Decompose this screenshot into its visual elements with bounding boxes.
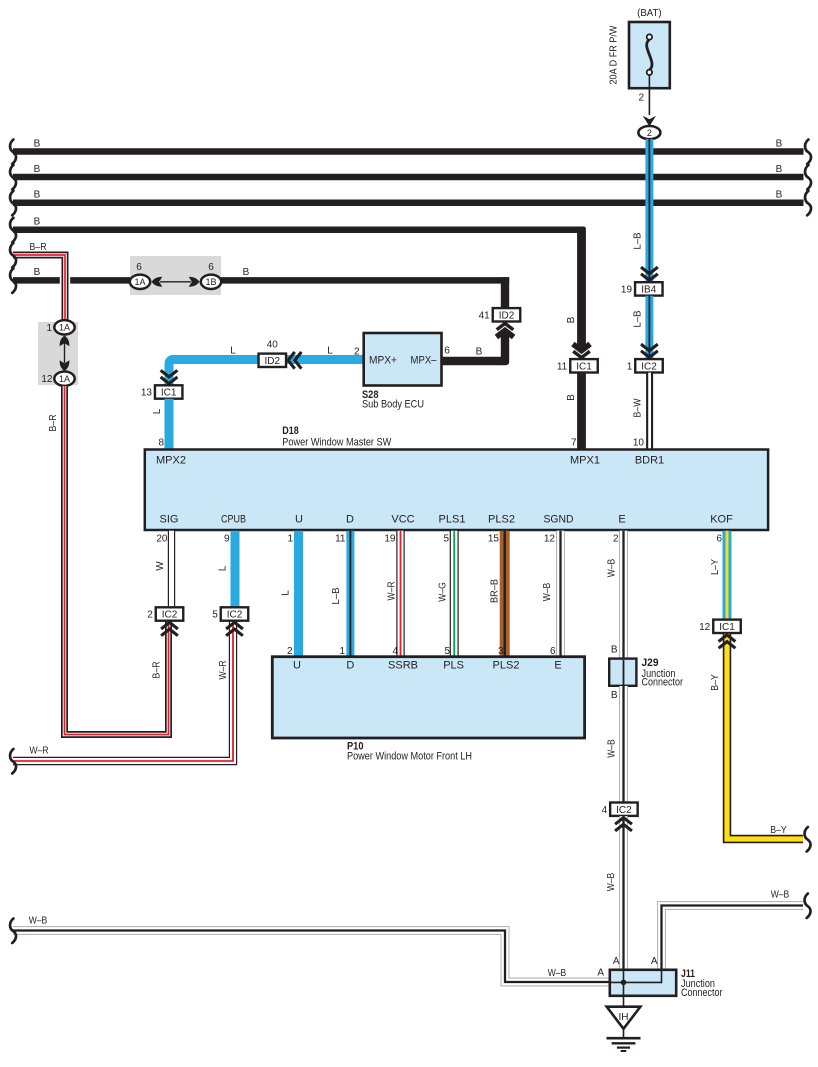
svg-text:PLS2: PLS2 — [488, 514, 515, 526]
wire W-B from D18 E pin 2 to junction connector J29 — [607, 531, 624, 659]
svg-text:4: 4 — [602, 805, 608, 816]
wire B-R from 1A pin 12 down and right to IC2 pin 2 — [48, 386, 178, 735]
wire L-B from connector 2 to IB4 pin 19 — [633, 139, 658, 282]
svg-text:E: E — [554, 660, 561, 672]
wire W-B from IC2 pin 4 to J11 pin A — [606, 816, 632, 970]
svg-text:IC2: IC2 — [616, 805, 632, 816]
connector IB4 pin 19 — [635, 282, 663, 295]
svg-text:9: 9 — [224, 534, 230, 545]
svg-text:SSRB: SSRB — [388, 660, 418, 672]
svg-text:U: U — [295, 514, 303, 526]
svg-text:W–B: W–B — [29, 916, 48, 927]
svg-text:MPX1: MPX1 — [570, 455, 600, 467]
svg-text:B–R: B–R — [30, 242, 47, 253]
svg-text:12: 12 — [699, 622, 711, 633]
svg-text:W–B: W–B — [548, 968, 567, 979]
svg-text:CPUB: CPUB — [221, 514, 246, 526]
svg-text:8: 8 — [158, 438, 164, 449]
wire B-Y from IC1 pin 12 to right break — [710, 634, 811, 852]
svg-text:Power Window Motor Front LH: Power Window Motor Front LH — [347, 751, 472, 763]
svg-text:40: 40 — [267, 340, 279, 351]
junction block shading 1A-1B — [130, 256, 221, 295]
svg-text:L: L — [327, 346, 333, 357]
svg-text:IH: IH — [619, 1012, 629, 1023]
svg-text:B: B — [566, 316, 577, 323]
svg-text:10: 10 — [633, 437, 645, 448]
svg-text:ID2: ID2 — [499, 310, 515, 321]
wire L from IC1 to D18 MPX2 pin 8 — [152, 399, 169, 449]
wire W-R from left break to IC2 pin 5 — [10, 621, 243, 774]
svg-text:MPX2: MPX2 — [156, 455, 186, 467]
wire W from D18 SIG pin 20 to IC2 pin 2 — [155, 531, 172, 608]
svg-text:1: 1 — [627, 361, 633, 372]
svg-text:6: 6 — [136, 262, 142, 273]
svg-text:B: B — [776, 138, 783, 149]
svg-text:1A: 1A — [59, 374, 70, 384]
wire BR-B from D18 PLS2 pin 15 to P10 PLS2 pin 3 — [488, 531, 505, 658]
svg-text:W–B: W–B — [771, 890, 790, 901]
connector 1A pin 6 (rail 5) — [130, 262, 150, 289]
switch D18 Power Window Master SW — [145, 425, 768, 530]
svg-text:2: 2 — [613, 534, 619, 545]
arrow into ID2 pin 40 — [288, 352, 301, 369]
svg-text:BR–B: BR–B — [490, 579, 501, 603]
svg-text:1A: 1A — [59, 323, 70, 333]
svg-text:E: E — [618, 514, 625, 526]
wires inside J11 and junction dot — [610, 970, 662, 996]
connector IC1 pin 11 — [570, 359, 598, 372]
svg-text:L: L — [230, 346, 236, 357]
svg-text:MPX+: MPX+ — [369, 355, 397, 367]
connector oval 2 — [638, 126, 660, 139]
svg-text:11: 11 — [557, 361, 568, 372]
wire L-Y from D18 KOF pin 6 to IC1 pin 12 — [710, 531, 727, 620]
svg-text:D18: D18 — [282, 425, 299, 437]
connector IC2 pin 2 (SIG) — [156, 607, 184, 620]
svg-text:B: B — [776, 164, 783, 175]
svg-text:B: B — [34, 190, 41, 201]
svg-text:B–Y: B–Y — [770, 825, 787, 836]
wire B ground rail 4 to D18 MPX1 — [10, 217, 586, 349]
connector IC2 pin 5 (CPUB) — [221, 607, 249, 620]
junction block shading 1A-1A — [38, 322, 78, 385]
svg-text:B: B — [243, 267, 250, 278]
svg-text:B–W: B–W — [633, 398, 644, 417]
svg-text:W–B: W–B — [542, 582, 553, 601]
arrow between 1A pins — [60, 336, 70, 372]
svg-text:B–R: B–R — [152, 662, 163, 679]
svg-text:IC2: IC2 — [227, 610, 243, 621]
svg-text:IC2: IC2 — [641, 361, 657, 372]
svg-text:6: 6 — [208, 262, 214, 273]
svg-text:PLS1: PLS1 — [439, 514, 466, 526]
svg-text:13: 13 — [141, 388, 153, 399]
svg-text:IB4: IB4 — [641, 285, 656, 296]
svg-text:D: D — [346, 660, 354, 672]
svg-text:1: 1 — [46, 323, 52, 334]
svg-text:(BAT): (BAT) — [637, 8, 662, 19]
svg-text:SGND: SGND — [544, 514, 574, 526]
svg-text:B: B — [476, 347, 483, 358]
svg-text:BDR1: BDR1 — [635, 455, 664, 467]
svg-text:A: A — [651, 956, 658, 967]
svg-text:19: 19 — [621, 285, 633, 296]
svg-text:B: B — [611, 690, 618, 701]
svg-text:L–B: L–B — [633, 310, 644, 327]
wire L-B from IB4 to IC2 pin 1 — [633, 296, 658, 359]
svg-text:KOF: KOF — [710, 514, 733, 526]
svg-text:IC1: IC1 — [576, 361, 592, 372]
connector IC1 pin 13 — [155, 385, 183, 398]
wire B ground rail 5 to S28 MPX- via ID2 — [10, 267, 509, 365]
svg-text:19: 19 — [384, 534, 396, 545]
svg-text:B: B — [34, 217, 41, 228]
svg-text:W–R: W–R — [218, 661, 229, 680]
wire B-W from IC2 to D18 BDR1 pin 10 — [633, 373, 650, 449]
svg-text:6: 6 — [716, 534, 722, 545]
svg-text:2: 2 — [647, 128, 652, 138]
svg-text:B: B — [611, 645, 618, 656]
fuse 20A D FR P/W (BAT) — [609, 8, 670, 88]
svg-text:B: B — [34, 267, 41, 278]
svg-text:2: 2 — [638, 93, 644, 104]
junction connector J29 — [609, 657, 683, 689]
wire L from S28 MPX+ pin 2 to IC1 pin 13 — [161, 346, 364, 386]
wire W-B from J11 pin A to right break — [651, 890, 811, 972]
svg-text:A: A — [597, 968, 604, 979]
wire L-B from D18 D pin 11 to P10 pin 1 — [331, 531, 350, 658]
svg-text:B–R: B–R — [48, 415, 59, 432]
svg-text:B: B — [34, 138, 41, 149]
svg-text:5: 5 — [212, 610, 218, 621]
connector 1A pin 1 (left) — [46, 320, 74, 334]
arrow into ID2 pin 41 — [496, 323, 513, 337]
svg-text:1A: 1A — [134, 277, 145, 287]
svg-text:Connector: Connector — [681, 987, 723, 999]
connector 1A pin 12 (left) — [41, 372, 74, 386]
ground IH — [607, 996, 641, 1051]
svg-text:SIG: SIG — [160, 514, 179, 526]
svg-text:11: 11 — [335, 534, 346, 545]
wire L from D18 CPUB pin 9 to IC2 pin 5 — [218, 531, 236, 608]
connector ID2 pin 40 — [259, 340, 287, 368]
svg-text:15: 15 — [488, 534, 500, 545]
svg-text:IC1: IC1 — [161, 388, 177, 399]
svg-text:20: 20 — [156, 534, 168, 545]
svg-text:ID2: ID2 — [265, 356, 281, 367]
connector ID2 pin 41 — [493, 308, 521, 321]
wire B ground rail 1 — [10, 138, 811, 164]
connector 1B pin 6 (rail 5) — [201, 262, 221, 289]
svg-text:L: L — [218, 565, 229, 571]
wire B from IC1 to D18 MPX1 pin 7 — [566, 373, 582, 449]
svg-text:5: 5 — [443, 534, 449, 545]
svg-text:B: B — [566, 394, 577, 401]
svg-text:L–B: L–B — [331, 587, 342, 604]
wire W-B from left break to J11 pin A — [10, 916, 610, 983]
wire B ground rail 3 — [10, 190, 811, 216]
svg-text:MPX–: MPX– — [411, 355, 438, 367]
svg-text:L–Y: L–Y — [710, 559, 721, 575]
svg-text:1B: 1B — [205, 277, 216, 287]
svg-text:A: A — [613, 956, 620, 967]
svg-text:PLS2: PLS2 — [493, 660, 520, 672]
svg-text:IC1: IC1 — [719, 622, 735, 633]
svg-text:D: D — [346, 514, 354, 526]
svg-text:1: 1 — [287, 534, 293, 545]
svg-text:41: 41 — [479, 310, 491, 321]
svg-text:12: 12 — [544, 534, 556, 545]
svg-text:B: B — [34, 164, 41, 175]
svg-text:W–R: W–R — [30, 746, 49, 757]
junction connector J11 — [610, 968, 723, 999]
svg-text:Power Window Master SW: Power Window Master SW — [282, 437, 392, 449]
connector IC1 pin 12 (KOF) — [713, 620, 741, 633]
wire W-R from D18 VCC pin 19 to P10 SSRB pin 4 — [384, 531, 400, 658]
svg-text:L: L — [152, 408, 163, 414]
svg-text:W–B: W–B — [607, 558, 618, 577]
svg-text:W: W — [155, 561, 166, 571]
svg-text:2: 2 — [354, 347, 360, 358]
svg-text:W–B: W–B — [606, 872, 617, 891]
svg-text:W–R: W–R — [387, 582, 398, 601]
svg-text:L: L — [281, 590, 292, 596]
wire W-B through J29 to IC2 pin 4 — [607, 660, 624, 803]
wire L from D18 U pin 1 to P10 pin 2 — [281, 531, 299, 658]
svg-text:Connector: Connector — [642, 677, 684, 689]
svg-text:L–B: L–B — [633, 232, 644, 249]
wire fuse pin 2 down to connector oval 2 — [638, 88, 656, 127]
wire B-R from left break to connector 1A pin 1 — [10, 242, 65, 321]
connector IC2 pin 4 — [610, 803, 638, 816]
svg-text:2: 2 — [147, 610, 153, 621]
arrow between 1A and 1B — [152, 277, 200, 287]
arrow into IC1 pin 11 — [573, 344, 590, 358]
svg-text:U: U — [293, 660, 301, 672]
svg-text:6: 6 — [444, 346, 450, 357]
motor P10 Power Window Motor Front LH — [272, 657, 584, 763]
svg-text:B: B — [776, 190, 783, 201]
connector IC2 pin 1 — [635, 359, 663, 372]
S28 pin 6 label — [444, 346, 450, 357]
svg-text:Sub Body ECU: Sub Body ECU — [362, 399, 424, 411]
svg-text:W–G: W–G — [438, 582, 449, 602]
svg-text:IC2: IC2 — [162, 610, 178, 621]
wire W-G from D18 PLS1 pin 5 to P10 PLS pin 5 — [438, 531, 455, 658]
svg-text:PLS: PLS — [443, 660, 464, 672]
ECU S28 Sub Body ECU — [362, 333, 442, 411]
svg-text:12: 12 — [41, 374, 53, 385]
svg-text:7: 7 — [571, 437, 577, 448]
svg-text:W–B: W–B — [607, 739, 618, 758]
svg-text:VCC: VCC — [391, 514, 414, 526]
wire W-B from D18 SGND pin 12 to P10 E pin 6 — [542, 531, 561, 658]
svg-text:20A D FR P/W: 20A D FR P/W — [609, 25, 620, 85]
wire B ground rail 2 — [10, 164, 811, 190]
svg-text:B–Y: B–Y — [710, 674, 721, 691]
